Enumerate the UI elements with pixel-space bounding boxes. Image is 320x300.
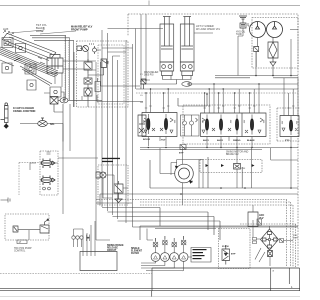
item 17 tag xyxy=(17,240,27,244)
pilot dots xyxy=(89,44,94,45)
anti cavitation valve xyxy=(234,164,241,170)
NFL label xyxy=(50,123,55,126)
dashed pilot gallery xyxy=(136,92,298,94)
footer frame left xyxy=(0,273,152,275)
bracket drop xyxy=(55,73,62,87)
hydraulic cooler fan xyxy=(175,164,194,183)
inlet feeder lines xyxy=(97,62,143,102)
bank feed dot xyxy=(206,93,208,95)
wheel motor circle 4 xyxy=(179,253,188,262)
page top rule xyxy=(0,1,300,6)
svg-text:3000 PSI: 3000 PSI xyxy=(144,75,154,77)
wheel motor star 3 xyxy=(172,238,177,247)
NFL wires xyxy=(20,124,63,152)
check valve symbol on line xyxy=(50,97,58,105)
return junction dots xyxy=(180,187,292,195)
aux section dashed box xyxy=(277,108,300,141)
wheel motor star 4 xyxy=(181,236,186,245)
section labels xyxy=(143,139,290,142)
main pump P1 xyxy=(250,22,266,38)
pilot spring valve xyxy=(101,59,109,68)
spool D1 xyxy=(290,116,293,135)
charge box wires xyxy=(103,175,128,198)
tilt port box 5 xyxy=(50,87,61,97)
tilt block leader lines xyxy=(10,27,76,34)
pilot filter xyxy=(84,88,92,96)
bridge right port xyxy=(280,239,284,243)
fan drain arrow xyxy=(175,166,193,184)
flow control valve NFL xyxy=(38,118,48,127)
wheel motor circle 2 xyxy=(161,253,170,262)
accumulator label xyxy=(13,107,36,113)
inline feeder box xyxy=(95,78,101,92)
svg-text:SWING: SWING xyxy=(233,140,241,142)
pilot dashed feeders xyxy=(65,36,69,100)
charge valve label xyxy=(102,158,120,162)
bypass relief valve xyxy=(222,245,230,265)
svg-text:BOOM: BOOM xyxy=(143,139,150,141)
pilot operator stack (left) dashed box xyxy=(40,151,58,195)
supply bus junction dots xyxy=(255,75,292,77)
pilot circuit label xyxy=(71,26,93,32)
inlet port labels xyxy=(140,74,144,104)
drop to gauges xyxy=(96,203,153,240)
suction filter xyxy=(268,42,278,66)
top feeder verticals xyxy=(136,14,151,89)
pump unload valve xyxy=(254,47,259,52)
trunnion bracket xyxy=(47,55,63,74)
return filter label xyxy=(131,248,143,255)
bank feed corner xyxy=(178,94,207,106)
svg-text:BYP: BYP xyxy=(231,254,236,256)
filter unit dashed box xyxy=(218,229,250,269)
acc pilot valve xyxy=(257,219,262,225)
svg-text:CRANE JUNCTION: CRANE JUNCTION xyxy=(13,110,36,113)
shuttle symbol xyxy=(87,235,90,242)
svg-text:HOSE: HOSE xyxy=(36,29,44,33)
right side feed drops xyxy=(256,39,298,188)
bank port T-marks xyxy=(145,106,295,108)
mid transition section xyxy=(181,115,200,136)
svg-text:a: a xyxy=(273,270,275,273)
acc block label xyxy=(259,214,264,220)
svg-text:AUX: AUX xyxy=(3,27,9,31)
main gallery buses xyxy=(136,84,298,89)
feeder junction xyxy=(145,79,147,81)
tilt port box 2 xyxy=(16,44,26,53)
svg-text:W/ LOAD CHECK VLV: W/ LOAD CHECK VLV xyxy=(196,28,221,31)
tilt manifold lower band xyxy=(0,47,58,86)
svg-text:▲: ▲ xyxy=(291,286,293,289)
orifice oval xyxy=(60,98,68,103)
aux arrows xyxy=(3,31,14,36)
pilot valve dashed enclosure xyxy=(77,41,129,107)
section springs xyxy=(143,120,298,124)
brake release valve xyxy=(40,219,49,233)
svg-text:.: . xyxy=(182,270,183,273)
accumulator xyxy=(1,103,9,124)
machine boundary dashed frame xyxy=(128,14,298,266)
wheel motor star 1 xyxy=(153,238,158,247)
fan frame xyxy=(171,160,203,189)
oil reservoir breather xyxy=(239,16,247,28)
pilot column wires xyxy=(74,49,104,108)
left drop from pilot to brake xyxy=(30,104,98,214)
main pump P2 xyxy=(267,22,283,38)
title block xyxy=(0,268,300,297)
return gallery stair-step xyxy=(96,160,298,240)
swing feed verticals xyxy=(208,157,242,188)
spool B4 xyxy=(251,115,254,135)
lift cylinder label xyxy=(196,25,221,31)
joystick valve 2 xyxy=(41,176,55,186)
spool B3 xyxy=(236,115,239,135)
wheel motor drains xyxy=(141,261,184,270)
power unit piping xyxy=(248,23,298,76)
svg-text:P1: P1 xyxy=(140,74,143,76)
tilt relief cross xyxy=(14,57,45,64)
bridge left ports xyxy=(253,238,257,244)
lift cylinder 2 xyxy=(180,17,194,76)
reduce valve stack xyxy=(114,181,123,203)
bridge piping xyxy=(253,205,293,266)
svg-text:CONTROL: CONTROL xyxy=(14,251,26,253)
wire from block to valves xyxy=(44,93,90,142)
tank return dots xyxy=(148,147,292,148)
tilt port box 3 xyxy=(25,64,36,74)
bank bottom stubs xyxy=(148,137,291,149)
spool B1 xyxy=(206,115,209,135)
accumulator charge block xyxy=(248,212,258,227)
wheel motor circle 1 xyxy=(151,253,160,262)
wheel motor links xyxy=(156,236,193,257)
svg-text:MTR: MTR xyxy=(293,238,298,240)
brake wires xyxy=(18,230,40,240)
cylinder piping xyxy=(163,76,192,85)
pilot gauge port xyxy=(93,46,97,54)
spool A1 xyxy=(147,114,150,134)
pilot reducing valve xyxy=(84,59,92,73)
rod feed line xyxy=(108,29,214,34)
svg-text:AUX1: AUX1 xyxy=(203,139,210,142)
swing circuit dashed box xyxy=(200,160,262,173)
power unit dashed box xyxy=(252,18,298,69)
tilt port box 1 xyxy=(2,38,13,48)
relief at inlet xyxy=(141,79,146,89)
load check orifice xyxy=(182,82,192,87)
svg-text:FILTER: FILTER xyxy=(131,253,139,255)
svg-text:BLADE: BLADE xyxy=(247,139,255,142)
valve section group B xyxy=(201,113,267,137)
section B details xyxy=(202,118,263,133)
tilt port box 4 xyxy=(27,80,36,90)
brake port symbol xyxy=(13,226,18,232)
svg-text:BYP: BYP xyxy=(179,153,184,155)
page bottom rule xyxy=(0,296,300,298)
inlet label xyxy=(144,71,159,77)
accumulator arrow xyxy=(4,124,9,129)
gauge cluster circles xyxy=(72,236,83,239)
tank return header xyxy=(140,148,298,150)
valve bank inlet cap xyxy=(138,115,146,136)
valve section group A xyxy=(142,113,177,137)
lift cylinder 1 xyxy=(160,17,174,76)
svg-text:TANK: TANK xyxy=(236,33,242,36)
aux labels above tilt block xyxy=(3,23,47,33)
pilot relief valve xyxy=(77,46,89,52)
left trunk verticals xyxy=(96,30,133,227)
breather drop xyxy=(238,28,243,76)
brake label xyxy=(14,248,32,253)
slab corner feeders xyxy=(30,35,74,107)
supply bus upper xyxy=(215,76,298,78)
bridge label xyxy=(293,235,298,240)
svg-text:CIRCUIT: CIRCUIT xyxy=(107,250,117,252)
swing brake label xyxy=(107,244,124,252)
svg-text:TILT: TILT xyxy=(161,140,166,142)
fuel tank label block xyxy=(193,249,207,259)
svg-text:25 PSI: 25 PSI xyxy=(222,246,229,248)
swing motor label xyxy=(226,151,249,157)
joystick drain ports xyxy=(43,152,51,190)
wheel motor star 2 xyxy=(162,236,167,245)
charge valve dashed box xyxy=(98,165,128,205)
charge pump circle xyxy=(96,172,106,178)
joystick valve 1 xyxy=(41,159,55,169)
tank feed pipes xyxy=(74,221,96,256)
wheel motor circle 3 xyxy=(170,253,179,262)
fan label xyxy=(190,181,193,184)
svg-text:LS: LS xyxy=(140,95,143,97)
svg-text:FA: FA xyxy=(190,181,193,184)
tilt manifold upper slab xyxy=(3,33,57,60)
bracket wires xyxy=(61,61,96,100)
lower distribution bus xyxy=(140,226,298,240)
cooler bypass check xyxy=(180,145,186,150)
pilot check valve xyxy=(84,78,92,84)
section D details xyxy=(282,128,298,131)
pilot inner dashed frame xyxy=(98,45,124,104)
tilt port box 6 xyxy=(2,63,12,73)
parking brake dashed box xyxy=(5,214,49,240)
fan piping xyxy=(160,148,183,205)
pilot hose dashes xyxy=(19,163,40,196)
oil tank box xyxy=(80,252,117,271)
spool B2 xyxy=(220,115,223,135)
left port stub xyxy=(1,198,11,203)
bank port stubs xyxy=(146,84,293,116)
control valve dashed enclosure xyxy=(183,105,270,144)
title marks xyxy=(182,270,293,289)
swing flow arrows xyxy=(206,164,255,167)
svg-text:FRONT PUMP: FRONT PUMP xyxy=(71,29,88,32)
return gallery dashed laterals xyxy=(96,200,296,268)
svg-text:PTO: PTO xyxy=(285,140,290,142)
section A details xyxy=(144,118,173,133)
spool A2 xyxy=(165,114,168,134)
trunk top links xyxy=(82,48,133,100)
bridge drain valve xyxy=(268,251,273,257)
check valve bridge diamond xyxy=(261,229,279,250)
swing feed wires xyxy=(237,148,252,188)
cooler bypass label xyxy=(179,153,184,155)
svg-text:DR: DR xyxy=(140,102,144,104)
svg-text:AUX2: AUX2 xyxy=(217,139,224,142)
valve section D xyxy=(280,116,299,137)
bank stub dots xyxy=(145,83,259,93)
